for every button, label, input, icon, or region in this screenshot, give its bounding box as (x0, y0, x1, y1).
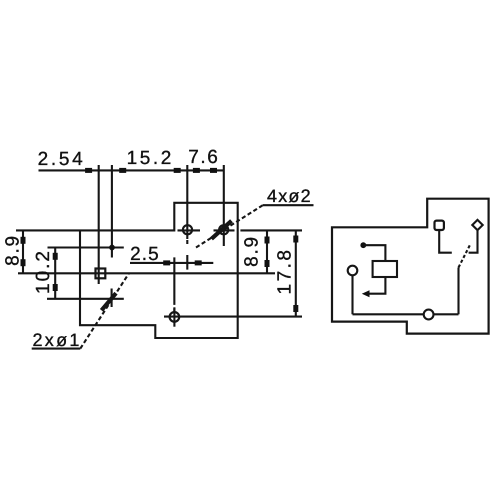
extension line x=111.9 (111, 165, 113, 258)
arrow tick 2.54 left (85, 168, 92, 173)
extension line x=187.3 dashed lower (186, 240, 188, 270)
arrow tick 7.6 right (210, 168, 217, 173)
pin hole circle P3 at 174.4,316.9 (170, 312, 180, 322)
pin cross at 111.6,299 vertical (111, 289, 113, 308)
arrow tick 8.9 right bottom (265, 260, 270, 267)
svg-text:8.9: 8.9 (3, 234, 24, 266)
svg-text:4xø2: 4xø2 (267, 186, 312, 206)
terminal NO diamond (472, 220, 482, 230)
arrow tick 2.5 left (163, 260, 170, 265)
svg-text:15.2: 15.2 (127, 148, 174, 169)
arrow tick 8.9 left bottom (21, 259, 26, 266)
common terminal circle (424, 310, 434, 320)
terminal NC square (435, 221, 444, 230)
arrow tick 15.2 right (174, 168, 181, 173)
arrow tick 2.54 right (119, 168, 126, 173)
arrow tick 17.8 top (293, 236, 298, 243)
svg-text:8.9: 8.9 (242, 235, 263, 267)
pin P3 cross vertical (173, 307, 175, 326)
arrow tick 10.2 bottom (53, 284, 58, 291)
extension line x=223.8 (223, 165, 225, 246)
pin hole dot (o1) at 112,247.5 (109, 245, 115, 251)
row line y=298.8 (47, 298, 124, 300)
coil box (373, 261, 397, 277)
leader 4xo2 arrow slash (212, 221, 232, 239)
leader 2xo1 arrow slash (102, 293, 117, 310)
pin hole square at 100.4,273.4 (96, 269, 106, 279)
leader 2xo1 underline (32, 348, 81, 350)
arrow tick 17.8 bottom (293, 305, 298, 312)
pin hole circle P1 at 187.5,229.8 (183, 225, 192, 234)
arrow tick 2.5 right (195, 260, 202, 265)
svg-text:2.54: 2.54 (38, 149, 86, 170)
wire NC (439, 230, 452, 253)
dimension 17.8: dim line (295, 230, 297, 315)
leader 4xo2 underline (263, 204, 314, 206)
body outline (relay footprint) (80, 203, 238, 338)
arrow tick 8.9 left top (21, 237, 26, 244)
pin hole circle P2 at 223.7,229.8 (219, 225, 228, 234)
dimension line 2.5 (130, 262, 213, 264)
wire common bottom (353, 313, 459, 315)
dimension 8.9 left: dim line (22, 230, 24, 273)
row line y=247.5 (coil pin row) (48, 246, 124, 248)
svg-text:7.6: 7.6 (188, 147, 219, 168)
svg-text:17.8: 17.8 (275, 248, 296, 295)
dimension 8.9 right: dim line (266, 230, 268, 273)
leader 2xo1 dashed line (80, 273, 129, 348)
wire coil top (364, 245, 385, 261)
wire NO (469, 230, 478, 253)
dimension line top (2.54 / 15.2 / 7.6) (39, 169, 224, 171)
leader 4xo2 dashed line (196, 205, 263, 247)
schematic outline (bottom view) (332, 199, 489, 334)
svg-text:2xø1: 2xø1 (33, 330, 82, 350)
coil terminal circle (348, 266, 358, 276)
wire coil bottom (369, 277, 385, 294)
extension line x=174.35 (173, 257, 175, 311)
wire pole vertical (457, 268, 459, 315)
svg-text:10.2: 10.2 (33, 249, 54, 294)
row line y=273.3 (long mid row) (18, 272, 275, 274)
dimension 10.2: dim line (54, 247, 56, 299)
arrow tick 10.2 top (53, 253, 58, 260)
armature arrow (362, 290, 370, 297)
arrow tick 8.9 right top (265, 237, 270, 244)
pin row extension right y=230.4 (240, 229, 302, 231)
wire coil terminal down (351, 275, 353, 314)
row line y=316.6 through P3 to right extension (164, 316, 302, 318)
coil terminal dot (360, 242, 366, 248)
arrow tick 7.6 left (193, 168, 200, 173)
pin P2 cross horizontal (214, 229, 235, 231)
svg-text:2.5: 2.5 (130, 244, 160, 265)
extension line x=98.7 (98, 165, 100, 284)
switch lever dashed (459, 245, 470, 267)
pin P1 cross horizontal (178, 229, 201, 231)
top edge row line y=230.4 with left extension (16, 229, 174, 231)
extension line x=187.3 (186, 165, 188, 239)
